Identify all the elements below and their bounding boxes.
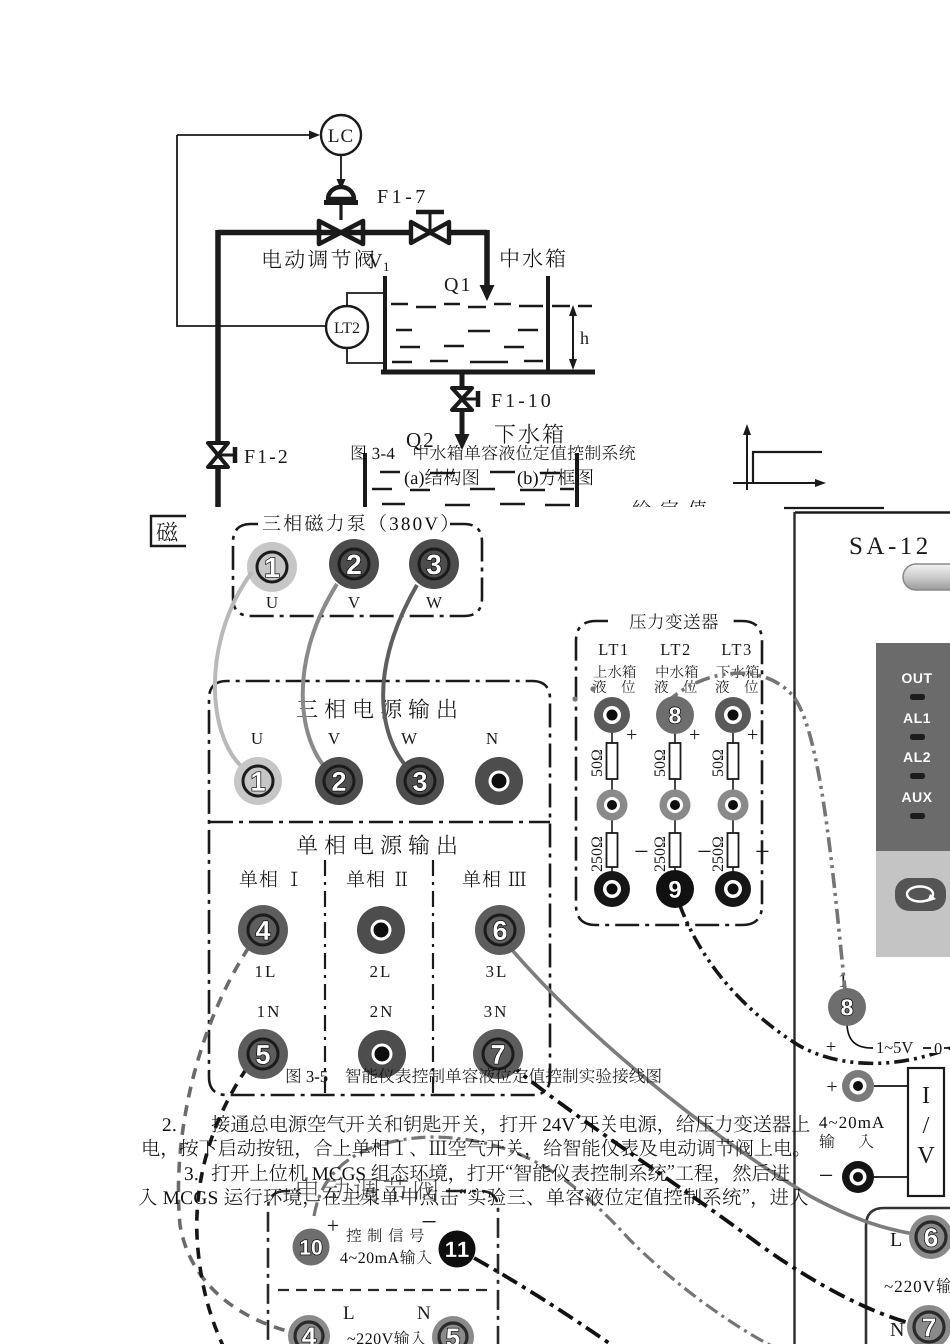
LED AL1 [910,734,925,740]
resistor chain column 2 [674,733,676,876]
label 输入 [819,1134,873,1149]
svg-text:SA-12: SA-12 [849,533,932,560]
terminal pump 2 [329,539,379,589]
pump label box 磁 [151,516,200,546]
svg-text:250Ω: 250Ω [652,836,669,872]
SA-12 indicator panel [876,643,950,851]
svg-text:Q1: Q1 [444,274,472,296]
svg-text:250Ω: 250Ω [589,836,606,872]
svg-text:50Ω: 50Ω [710,749,727,777]
terminal power 2L [357,906,405,954]
terminal power 4 (1L) [238,905,288,955]
wire LT2-8 dash dots [572,696,577,701]
resistor 250ohm [607,833,618,867]
svg-text:LT2: LT2 [334,320,360,337]
svg-text:N: N [417,1303,431,1324]
label 单相II [347,870,407,887]
svg-text:50Ω: 50Ω [589,749,606,777]
separator 三相/单相 [209,821,550,824]
LT2 tap lines [347,293,385,363]
wire 3N to instrument N (dash-dot) [506,1061,926,1327]
terminal IV minus [842,1161,874,1193]
terminal SA12 input 8 [828,988,866,1026]
wire feedback arrow into LC [177,134,314,136]
svg-text:−: − [634,837,649,866]
I/V converter box [908,1068,944,1196]
terminal pump 1 [247,542,297,592]
resistor 50ohm [670,743,681,779]
svg-text:2N: 2N [370,1002,395,1021]
terminal instr L 6 [909,1215,950,1259]
resistor 50ohm [728,743,739,779]
svg-text:LT1: LT1 [598,640,629,659]
svg-text:V: V [368,250,383,272]
terminal instr N 7 [907,1305,950,1344]
paragraph line4 [139,1188,808,1208]
wire 11 control (black dash-dot) [474,1258,616,1344]
svg-text:1L: 1L [255,962,278,981]
LED OUT [910,694,925,700]
SA-12 display window [903,564,950,590]
transmitter LT2 circle [326,306,368,348]
control valve V1 [319,221,363,244]
label 单相III [463,870,526,887]
label 下水箱 [717,665,759,678]
svg-text:W: W [401,729,418,748]
label 电动调节阀V1 [264,249,374,268]
SA-12 keypad panel [876,851,950,957]
svg-text:0: 0 [934,1039,942,1058]
LED AUX [910,813,925,819]
svg-text:+: + [327,1213,339,1238]
LED AL2 [910,773,925,779]
separator columns 单相 [325,860,433,1095]
box 压力变送器 border [576,621,762,925]
step response graph axes [733,430,820,490]
wire 10 control (grey dash-dot) [314,1137,792,1344]
svg-text:U: U [266,593,278,612]
svg-text:1N: 1N [257,1002,282,1021]
SA-12 loop button [895,878,946,911]
terminal power 2N [358,1030,406,1078]
wire LT2-9 to plus (black dash-dot-dot) [679,903,950,1063]
wire LT2-8 to SA12-8 (grey dash-dot-dot) [666,673,846,1000]
label 液位3 [716,680,758,693]
label 液位1 [593,680,635,693]
box 三相磁力泵 border [233,524,482,616]
terminal LT2 top 8 [656,696,694,734]
svg-text:N: N [486,729,498,748]
figure 3-5 white background [186,507,950,1344]
pipe inlet vertical with arrow [484,230,490,288]
paragraph line3 [212,1164,790,1184]
wire LC to valve arrow [340,155,342,182]
LED label AL1 [903,713,930,723]
terminal power 7 (3N) [473,1029,523,1079]
caption fig3-4 line1 [352,445,635,461]
resistor 250ohm [728,833,739,867]
terminal LT2 mid [660,790,691,821]
label 4~20mA [819,1117,884,1129]
wire plus to IV [874,1086,908,1177]
paragraph line3 number [185,1167,198,1180]
label 4~20mA输入 [340,1250,431,1265]
wire 1N to N (dashed black) [197,1068,247,1344]
label 中水箱 [501,248,565,267]
box 电动调节阀 border [268,1191,498,1344]
svg-text:V: V [917,1143,935,1169]
svg-text:W: W [426,593,443,612]
wire pump2 to power2 [303,584,337,773]
label ~220V输入 [347,1331,425,1344]
terminal power 5 (1N) [238,1029,288,1079]
label ~220V right [885,1278,950,1294]
terminal power 2 [315,757,363,805]
terminal pump 3 [409,539,459,589]
terminal power 6 (3L) [475,905,525,955]
svg-text:+: + [626,724,637,746]
svg-text:+: + [689,724,700,746]
svg-text:+: + [747,724,758,746]
box power panel border [209,681,550,1095]
label 1~5V bg [873,1038,923,1053]
loop icon [907,887,933,902]
SA-12 panel top edge [784,507,884,509]
svg-text:LT3: LT3 [721,640,752,659]
svg-text:3N: 3N [484,1002,509,1021]
svg-text:1~5V: 1~5V [876,1038,913,1057]
resistor chain column 1 [611,733,613,876]
paragraph line1 [212,1115,810,1135]
controller LC circle [321,115,361,155]
wire pump1 to power1 [215,572,252,773]
svg-text:h: h [580,328,589,348]
svg-text:V: V [328,729,341,748]
valve actuator dome [328,187,354,199]
pipe outlet arrow [460,411,465,438]
terminal ctrl 10 [293,1229,330,1266]
svg-text:L: L [343,1303,355,1324]
wire feedback vertical [177,135,325,326]
step signal [753,452,822,483]
terminal LT2 bot 9 [656,870,694,908]
terminal ctrl 11 [439,1231,476,1268]
label 下水箱 [495,424,563,444]
terminal power 3 [396,757,444,805]
terminal LT3 bot [715,871,751,907]
wire pump3 to power3 [383,585,417,773]
svg-text:+: + [826,1076,837,1098]
terminal LT3 mid [718,790,749,821]
terminal power 1 [234,757,282,805]
resistor 250ohm [670,833,681,867]
tank water dashes rows [396,330,538,331]
svg-text:I: I [922,1083,930,1109]
tank 中水箱 walls [385,276,548,372]
box instrument power border [866,1208,950,1344]
valve F1-7 [411,222,449,243]
label 给定值 [633,500,707,517]
svg-text:V: V [348,593,361,612]
wire 1L to L (dashed grey) [178,947,295,1333]
terminal 220v L 4 [288,1315,330,1344]
dimension h arrow [572,312,574,364]
terminal power N [475,757,523,805]
svg-text:50Ω: 50Ω [652,749,669,777]
lower tank water dashes [380,472,560,473]
label 磁 [157,522,178,542]
terminal LT3 top [715,697,751,733]
title 三相电源输出 [297,698,456,718]
wire 3L to instrument L (grey) [507,944,914,1234]
label 0 bg [931,1040,944,1053]
tank 下水箱 walls [365,453,577,509]
box title 三相磁力泵(380V) [263,514,447,532]
box title 电动调节阀 [298,1177,438,1202]
label 上水箱 [594,665,636,678]
label 单相I [240,870,298,887]
valve F1-10 [452,388,472,410]
separator dashed [278,1289,492,1291]
svg-text:−: − [755,837,770,866]
wire 8 to 1~5V [847,1025,950,1048]
label 液位2 [655,680,697,693]
title 单相电源输出 [297,834,456,854]
terminal 220v N 5 [432,1316,474,1344]
terminal LT1 mid [597,790,628,821]
terminal LT1 bot [594,871,630,907]
svg-text:F1-7: F1-7 [377,186,429,208]
LED label AUX [902,792,932,802]
terminal LT1 top [594,697,630,733]
pipe left vertical [215,230,221,509]
paragraph line2 [144,1139,799,1159]
svg-text:−: − [421,1207,437,1238]
svg-text:LC: LC [328,126,354,147]
resistor 50ohm [607,743,618,779]
svg-text:2L: 2L [370,962,393,981]
caption fig3-5 [287,1068,661,1083]
paragraph line1 number [163,1118,176,1131]
caption fig3-4 line2 [405,469,593,488]
svg-text:3L: 3L [486,962,509,981]
pipe outlet [460,374,465,387]
terminal IV plus [842,1070,874,1102]
svg-text:F1-2: F1-2 [244,446,290,468]
tank water surface dashes [391,304,543,307]
svg-text:U: U [251,729,263,748]
LED label OUT [902,673,932,683]
svg-text:250Ω: 250Ω [710,836,727,872]
svg-text:+: + [826,1037,837,1058]
label 中水箱 [657,665,698,678]
label 控制信号 [346,1228,423,1242]
svg-text:−: − [819,1161,834,1190]
box title 压力变送器 [630,613,718,629]
svg-text:/: / [923,1113,930,1139]
svg-text:F1-10: F1-10 [491,390,554,412]
tank bottom [381,370,595,375]
svg-text:LT2: LT2 [660,640,691,659]
SA-12 panel left edge [793,512,795,1344]
resistor chain column 3 [732,733,734,876]
svg-text:1: 1 [383,259,390,274]
pipe main horizontal [218,230,487,236]
valve F1-2 [208,443,228,467]
LED label AL2 [903,752,930,762]
